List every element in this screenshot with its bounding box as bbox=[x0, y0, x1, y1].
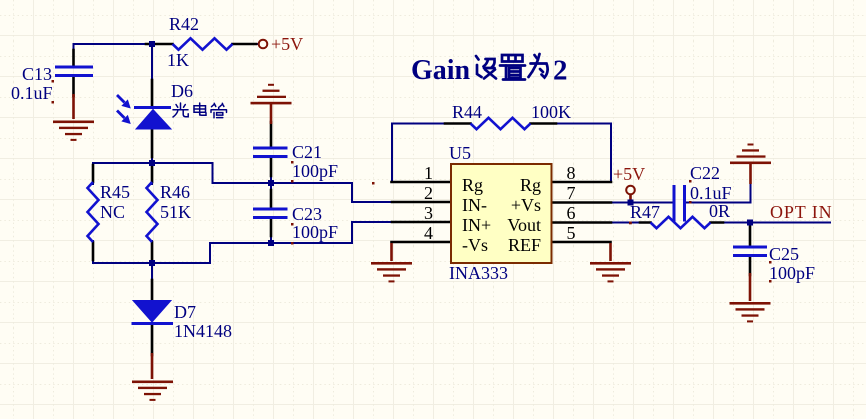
svg-text:1K: 1K bbox=[167, 50, 189, 70]
svg-text:+5V: +5V bbox=[271, 34, 303, 54]
svg-text:+5V: +5V bbox=[613, 164, 645, 184]
svg-text:IN-: IN- bbox=[462, 195, 487, 215]
svg-text:INA333: INA333 bbox=[449, 263, 508, 283]
svg-text:C23: C23 bbox=[292, 204, 322, 224]
svg-text:6: 6 bbox=[567, 203, 576, 223]
svg-text:-Vs: -Vs bbox=[462, 235, 488, 255]
svg-text:OPT IN: OPT IN bbox=[770, 202, 833, 222]
svg-text:R44: R44 bbox=[452, 102, 482, 122]
svg-text:1N4148: 1N4148 bbox=[174, 321, 232, 341]
svg-text:2: 2 bbox=[424, 183, 433, 203]
svg-text:5: 5 bbox=[567, 223, 576, 243]
svg-text:D7: D7 bbox=[174, 302, 196, 322]
svg-text:U5: U5 bbox=[449, 143, 471, 163]
svg-text:R42: R42 bbox=[169, 14, 199, 34]
svg-text:7: 7 bbox=[567, 183, 576, 203]
svg-text:REF: REF bbox=[508, 235, 541, 255]
svg-text:100pF: 100pF bbox=[769, 263, 815, 283]
svg-text:C21: C21 bbox=[292, 142, 322, 162]
svg-text:0.1uF: 0.1uF bbox=[690, 183, 732, 203]
svg-text:100pF: 100pF bbox=[292, 222, 338, 242]
svg-text:IN+: IN+ bbox=[462, 215, 491, 235]
svg-text:100K: 100K bbox=[531, 102, 571, 122]
svg-text:R47: R47 bbox=[630, 202, 660, 222]
svg-text:0R: 0R bbox=[709, 201, 730, 221]
svg-text:+Vs: +Vs bbox=[511, 195, 541, 215]
svg-text:NC: NC bbox=[100, 202, 125, 222]
svg-text:Rg: Rg bbox=[462, 175, 483, 195]
svg-text:C13: C13 bbox=[22, 64, 52, 84]
svg-text:3: 3 bbox=[424, 203, 433, 223]
svg-text:R46: R46 bbox=[160, 182, 190, 202]
svg-text:2: 2 bbox=[553, 55, 568, 87]
svg-text:8: 8 bbox=[567, 163, 576, 183]
svg-text:C25: C25 bbox=[769, 244, 799, 264]
svg-text:4: 4 bbox=[424, 223, 433, 243]
svg-text:R45: R45 bbox=[100, 182, 130, 202]
svg-text:C22: C22 bbox=[690, 163, 720, 183]
svg-text:51K: 51K bbox=[160, 202, 191, 222]
svg-text:Vout: Vout bbox=[507, 215, 541, 235]
svg-text:0.1uF: 0.1uF bbox=[11, 83, 53, 103]
svg-text:1: 1 bbox=[424, 163, 433, 183]
svg-text:Gain: Gain bbox=[411, 55, 471, 86]
svg-text:Rg: Rg bbox=[520, 175, 541, 195]
svg-text:100pF: 100pF bbox=[292, 161, 338, 181]
svg-text:D6: D6 bbox=[171, 81, 193, 101]
